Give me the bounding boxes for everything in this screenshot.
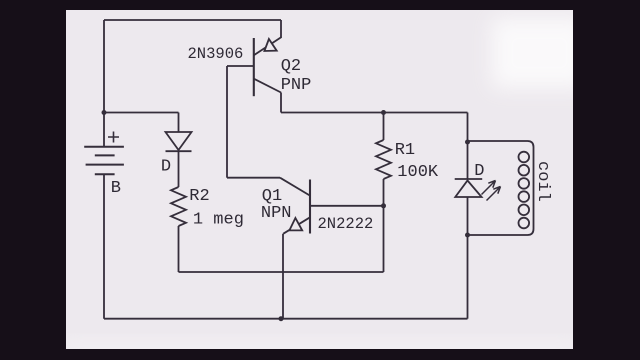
- transistor Q2 collector diagonal: [254, 79, 281, 93]
- wire cross wire R2 to R1 net: [179, 271, 384, 273]
- transistor Q1 emitter arrow: [289, 218, 302, 230]
- battery B plate long top: [84, 146, 124, 148]
- node R1 bottom Q1 base junction: [381, 203, 386, 208]
- resistor R2 zigzag: [171, 187, 186, 226]
- wire LED anode vertical: [467, 142, 469, 179]
- battery B plate short bottom: [95, 173, 115, 175]
- wire R2 bottom to cross wire: [178, 226, 180, 272]
- svg-text:R1: R1: [395, 141, 415, 160]
- svg-text:D: D: [161, 158, 171, 177]
- wire diode to R2: [178, 151, 180, 187]
- wire LED branch top drop: [467, 113, 469, 143]
- svg-text:NPN: NPN: [261, 204, 292, 223]
- transistor Q2 emitter diagonal: [254, 37, 282, 55]
- LED D emission arrow 1: [482, 181, 496, 195]
- transistor Q1 base bar: [309, 180, 311, 234]
- LED D emission arrow 2: [487, 187, 501, 201]
- wire Q1 collector feed: [227, 177, 280, 179]
- wire battery node to diode top: [104, 112, 179, 114]
- wire Q1 emitter drop: [282, 234, 284, 319]
- svg-text:B: B: [111, 179, 121, 198]
- transistor Q2 base bar: [253, 38, 255, 96]
- schematic paper: [66, 10, 573, 349]
- wire mid rail Q2 collector to LED branch: [281, 112, 468, 114]
- wire left drop from top rail to battery node: [103, 20, 105, 113]
- svg-text:2N2222: 2N2222: [318, 215, 374, 233]
- wire battery top lead: [103, 113, 105, 147]
- svg-text:PNP: PNP: [281, 76, 312, 95]
- LED D triangle: [455, 181, 481, 198]
- node battery plus junction: [102, 110, 107, 115]
- node LED coil bottom junction: [465, 233, 470, 238]
- inductor coil loop 3: [519, 178, 530, 189]
- resistor R1 zigzag: [376, 140, 391, 179]
- wire drop from top rail to Q2 emitter: [280, 20, 282, 38]
- wire LED bottom vertical: [467, 197, 469, 235]
- wire R1 top lead: [383, 113, 385, 141]
- node R1 top junction: [381, 110, 386, 115]
- svg-text:D: D: [474, 162, 484, 181]
- transistor Q1 collector diagonal: [280, 178, 310, 196]
- svg-text:1 meg: 1 meg: [193, 211, 244, 230]
- LED D cathode bar: [455, 178, 483, 180]
- diode D anode triangle: [166, 132, 192, 150]
- node Q1 emitter bottom rail junction: [279, 316, 284, 321]
- inductor coil loop 1: [519, 152, 530, 163]
- transistor Q2 emitter arrow: [264, 39, 276, 51]
- wire top rail: [104, 19, 281, 21]
- battery B plate short: [95, 154, 115, 156]
- node LED coil top junction: [465, 140, 470, 145]
- diode D cathode bar: [166, 150, 192, 152]
- battery B plate long: [86, 164, 124, 166]
- svg-text:coil: coil: [533, 161, 552, 202]
- inductor coil loop 6: [519, 218, 530, 229]
- wire LED branch bottom drop: [467, 235, 469, 319]
- svg-text:100K: 100K: [397, 163, 439, 182]
- battery plus sign: [108, 132, 119, 143]
- wire Q2 collector drop: [280, 93, 282, 113]
- inductor coil outline: [468, 141, 534, 235]
- transistor Q1 base lead: [310, 205, 384, 207]
- svg-text:R2: R2: [189, 187, 209, 206]
- wire Q2 base vertical: [226, 66, 228, 178]
- watermark blur patch: [60, 18, 587, 356]
- transistor Q1 emitter diagonal: [283, 217, 310, 233]
- svg-text:2N3906: 2N3906: [188, 45, 244, 63]
- inductor coil loop 2: [519, 165, 530, 176]
- wire R1 bottom lead: [383, 179, 385, 206]
- wire bottom rail: [104, 318, 468, 320]
- inductor coil loop 5: [519, 205, 530, 216]
- inductor coil loop 4: [519, 191, 530, 202]
- wire battery bottom lead: [103, 174, 105, 319]
- wire diode top vertical: [178, 113, 180, 133]
- wire R1 net down to cross wire: [383, 206, 385, 272]
- svg-text:Q2: Q2: [281, 57, 301, 76]
- transistor Q2 base lead: [227, 65, 254, 67]
